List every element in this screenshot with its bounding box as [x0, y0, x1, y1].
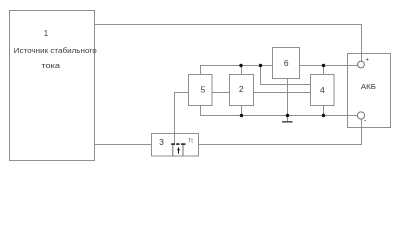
- svg-text:1: 1: [44, 29, 49, 38]
- svg-text:тока: тока: [41, 61, 61, 70]
- block 6: [273, 48, 300, 79]
- battery - terminal: [357, 112, 364, 119]
- wire top bus from block1 to + terminal: [95, 25, 362, 62]
- wire block6 bottom to ground: [287, 79, 289, 122]
- svg-text:6: 6: [284, 58, 289, 68]
- block 5: [189, 75, 213, 106]
- junction below block 2: [240, 114, 243, 117]
- wire block3 up to block5: [175, 93, 189, 134]
- battery + terminal: [358, 61, 365, 68]
- wire block3 to - terminal: [199, 119, 362, 145]
- svg-text:Тt: Тt: [188, 139, 193, 145]
- wire mid bus left segment over blocks 5 and 2: [201, 66, 273, 75]
- wire block4 bottom drop: [323, 106, 325, 116]
- block 3 internal: dashed bar of sensor symbol: [171, 143, 185, 145]
- svg-text:3: 3: [159, 137, 164, 147]
- wire block2 to block4: [254, 92, 311, 94]
- wire mid bus right segment from block6 to + terminal: [300, 65, 358, 67]
- svg-text:5: 5: [201, 85, 206, 95]
- block 2: [230, 75, 254, 106]
- ground: [282, 121, 293, 123]
- svg-text:2: 2: [239, 84, 244, 94]
- block 3 internal: left leg of sensor: [172, 145, 174, 156]
- svg-text:Источник стабильного: Источник стабильного: [14, 46, 97, 55]
- block AKB (battery): [348, 54, 391, 128]
- wire drop to block2 top: [241, 66, 243, 75]
- junction mid bus at x=260: [259, 64, 262, 67]
- block 4: [311, 75, 335, 106]
- wire drop from mid bus down and under block 6 to block 4: [261, 66, 311, 85]
- block 3 internal: wire from top into sensor: [174, 134, 176, 144]
- junction above block 4: [322, 64, 325, 67]
- block 1 (current source): [10, 11, 95, 161]
- wire block5 to block2: [212, 92, 230, 94]
- svg-text:АКБ: АКБ: [361, 82, 376, 91]
- junction below block 4: [322, 114, 325, 117]
- wire block2 bottom drop: [241, 106, 243, 116]
- block 3 internal: up arrow: [177, 147, 180, 154]
- junction at ground node: [286, 114, 289, 117]
- wire drop to block4 top: [323, 66, 325, 75]
- svg-text:+: +: [365, 58, 369, 64]
- svg-text:4: 4: [320, 85, 325, 95]
- block 3 internal: right leg of sensor: [182, 145, 184, 156]
- junction above block 2: [239, 64, 242, 67]
- block 3 (temperature sensor): [152, 134, 199, 157]
- wire bottom bus from block5 to - terminal: [201, 106, 358, 116]
- wire block1 to block3: [95, 144, 152, 146]
